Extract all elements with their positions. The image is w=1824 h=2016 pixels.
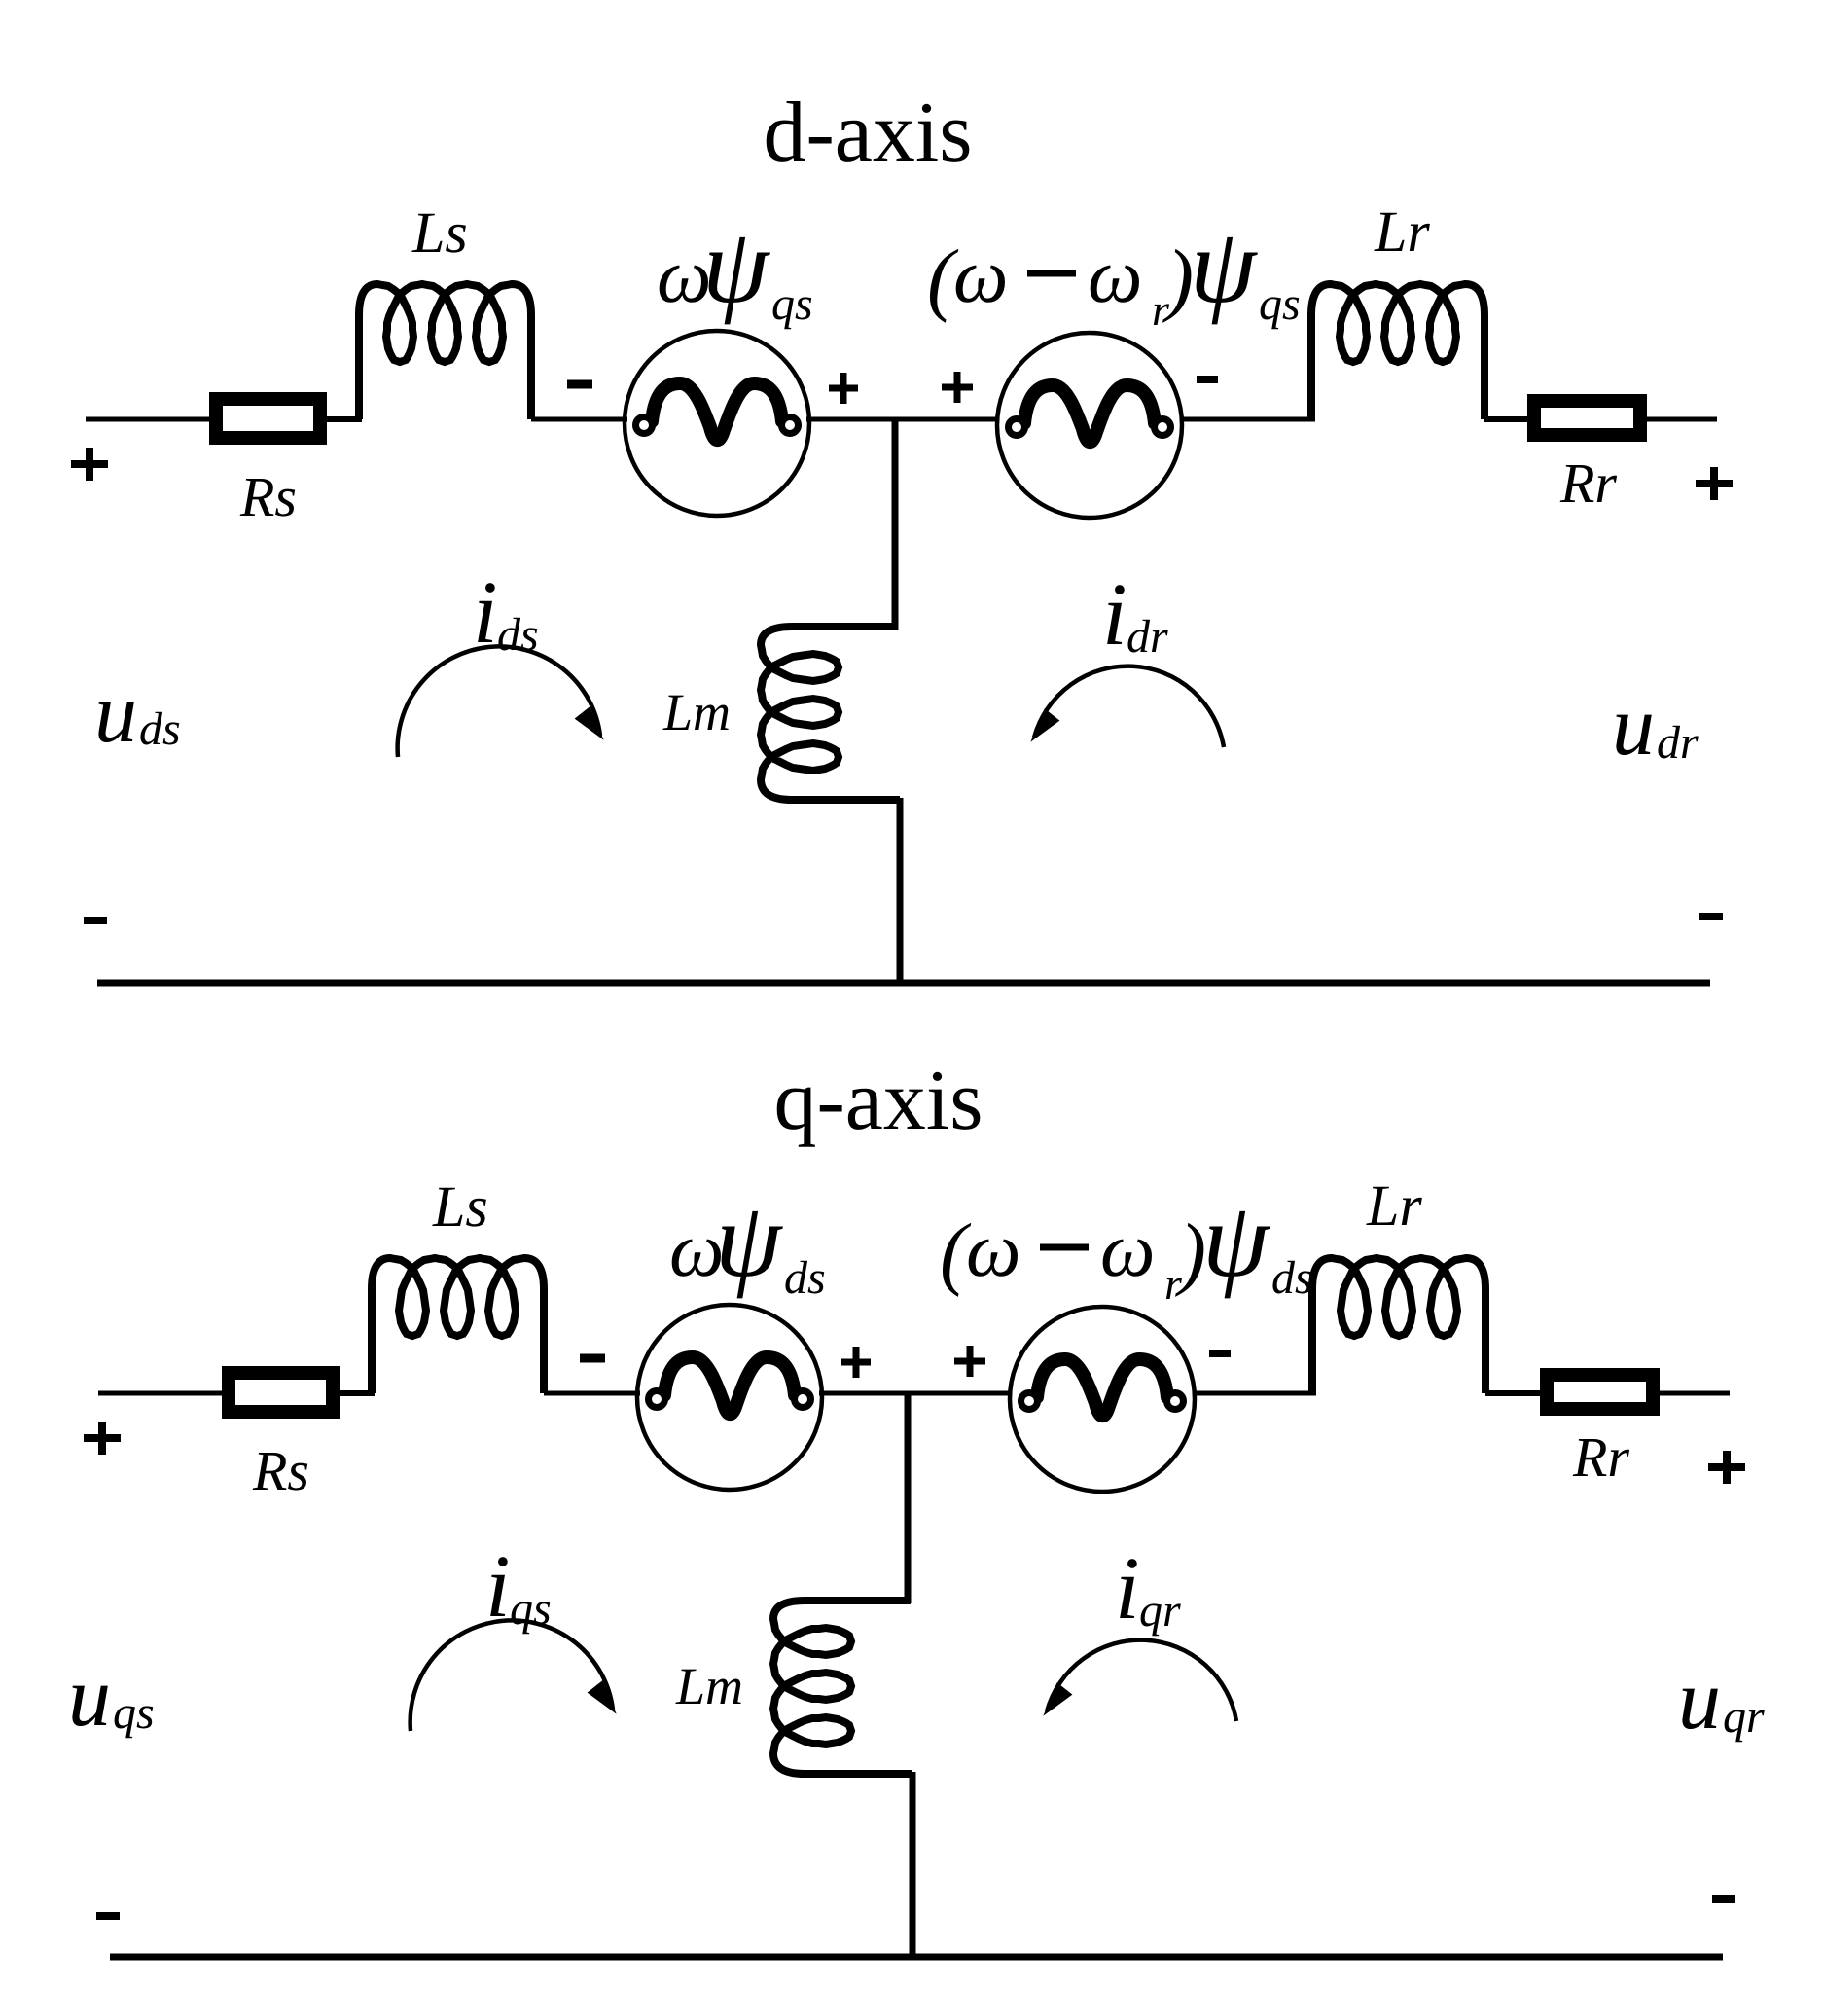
wire: center node down to Lm (d-axis) [892, 419, 899, 630]
svg-text:ψ: ψ [1190, 206, 1258, 325]
svg-text:qr: qr [1139, 1585, 1181, 1637]
wire: source (ω−ωr)ψds to Lr (q-axis) [1193, 1391, 1316, 1396]
wire: source ωψqs to center node [806, 417, 895, 422]
wire: Lm to bottom rail (q-axis) [910, 1772, 916, 1957]
wire: Rs to Ls (d-axis) [320, 416, 362, 422]
plus sign at source (ω−ωr)ψds left [954, 1346, 985, 1377]
svg-text:Lr: Lr [1366, 1173, 1422, 1238]
svg-text:ds: ds [1271, 1252, 1313, 1304]
svg-text:Ls: Ls [432, 1174, 488, 1239]
svg-text:Rs: Rs [239, 465, 297, 528]
inductor Lr (q-axis rotor leakage) [1312, 1258, 1485, 1393]
svg-text:u: u [94, 666, 137, 761]
plus sign: u_qs positive terminal [84, 1422, 121, 1455]
inductor Lm (d-axis magnetizing) [761, 627, 900, 800]
svg-text:d-axis: d-axis [763, 86, 972, 180]
inductor Ls (d-axis stator leakage) [359, 284, 531, 419]
svg-text:Lm: Lm [675, 1657, 743, 1715]
plus sign at source ωψds right [841, 1347, 871, 1378]
plus sign at source (ω−ωr)ψqs left [942, 372, 973, 403]
svg-text:ω: ω [966, 1207, 1020, 1293]
svg-text:q-axis: q-axis [773, 1054, 983, 1148]
resistor Rs (d-axis stator) [216, 399, 320, 438]
svg-text:i: i [473, 562, 498, 662]
svg-text:qs: qs [510, 1583, 552, 1635]
minus sign: u_ds negative terminal [84, 917, 107, 924]
dependent source (ω−ωr)ψds (q-axis) [1010, 1307, 1195, 1492]
svg-text:Lr: Lr [1374, 199, 1430, 264]
plus sign: u_ds positive terminal [71, 448, 108, 481]
wire: Ls to source 1 (d-axis) [531, 417, 627, 422]
wire: left terminal to Rs (d-axis) [86, 417, 211, 422]
svg-text:ψ: ψ [1202, 1180, 1270, 1299]
plus sign: u_dr positive terminal [1696, 467, 1733, 500]
wire: source (ω−ωr)ψqs to Lr (d-axis) [1180, 417, 1315, 422]
svg-text:qs: qs [771, 278, 813, 330]
svg-text:ds: ds [139, 703, 181, 755]
svg-text:Rs: Rs [252, 1439, 309, 1502]
dependent source (ω−ωr)ψqs (d-axis) [997, 333, 1182, 518]
svg-text:ω: ω [1100, 1207, 1155, 1293]
svg-text:ω: ω [1088, 234, 1142, 319]
svg-text:dr: dr [1127, 611, 1168, 663]
wire: bottom rail (q-axis) [110, 1954, 1723, 1961]
minus sign at source (ω−ωr)ψds right [1209, 1350, 1231, 1357]
minus sign at source (ω−ωr)ψqs right [1197, 376, 1218, 383]
wire: Rs to Ls (q-axis) [333, 1390, 375, 1396]
wire: Lr to Rr (q-axis) [1485, 1390, 1542, 1396]
wire: center node to source (ω−ωr)ψds [908, 1391, 1012, 1396]
svg-text:qs: qs [1259, 278, 1301, 330]
minus sign: u_dr negative terminal [1699, 913, 1723, 920]
wire: left terminal to Rs (q-axis) [98, 1391, 224, 1396]
svg-text:dr: dr [1657, 717, 1699, 769]
current arrow i_qs [411, 1620, 613, 1731]
resistor Rr (q-axis rotor) [1547, 1375, 1653, 1409]
wire: Rr to right terminal (d-axis) [1647, 417, 1717, 422]
svg-text:Rr: Rr [1559, 451, 1617, 515]
svg-text:qr: qr [1723, 1691, 1765, 1743]
svg-text:Rr: Rr [1572, 1425, 1629, 1489]
svg-text:u: u [1678, 1653, 1721, 1747]
minus sign at source ωψqs left [567, 380, 592, 389]
inductor Lm (q-axis magnetizing) [773, 1601, 912, 1774]
dependent source ωψqs (d-axis) [625, 331, 809, 516]
current arrow i_ds [398, 646, 600, 757]
svg-text:u: u [68, 1650, 111, 1745]
wire: Rr to right terminal (q-axis) [1660, 1391, 1730, 1396]
wire: center node to source (ω−ωr)ψqs [895, 417, 999, 422]
wire: Lr to Rr (d-axis) [1484, 416, 1529, 422]
svg-text:ds: ds [784, 1252, 826, 1304]
resistor Rr (d-axis rotor) [1534, 401, 1640, 435]
svg-text:ds: ds [497, 609, 539, 661]
svg-text:Lm: Lm [662, 683, 731, 741]
inductor Ls (q-axis stator leakage) [372, 1258, 544, 1393]
wire: source ωψds to center node [819, 1391, 908, 1396]
svg-text:i: i [485, 1536, 511, 1636]
current arrow i_qr [1047, 1640, 1236, 1721]
wire: Ls to source 1 (q-axis) [544, 1391, 640, 1396]
minus sign: u_qs negative terminal [96, 1912, 120, 1920]
svg-text:i: i [1102, 564, 1127, 664]
wire: Lm to bottom rail (d-axis) [897, 798, 904, 983]
svg-text:ψ: ψ [715, 1180, 783, 1299]
dependent source ωψds (q-axis) [637, 1305, 822, 1490]
minus sign: u_qr negative terminal [1712, 1895, 1735, 1903]
resistor Rs (q-axis stator) [229, 1373, 333, 1412]
plus sign: u_qr positive terminal [1708, 1451, 1745, 1484]
current arrow i_dr [1034, 666, 1224, 747]
svg-text:qs: qs [113, 1687, 155, 1739]
plus sign at source ωψqs right [829, 373, 858, 404]
svg-text:Ls: Ls [411, 200, 468, 265]
svg-text:ψ: ψ [702, 206, 770, 325]
inductor Lr (d-axis rotor leakage) [1311, 284, 1484, 419]
wire: bottom rail (d-axis) [97, 980, 1710, 987]
minus sign at source ωψds left [580, 1354, 605, 1363]
svg-text:i: i [1115, 1538, 1140, 1638]
svg-text:u: u [1612, 679, 1655, 774]
wire: center node down to Lm (q-axis) [905, 1393, 912, 1603]
svg-text:ω: ω [953, 234, 1008, 319]
